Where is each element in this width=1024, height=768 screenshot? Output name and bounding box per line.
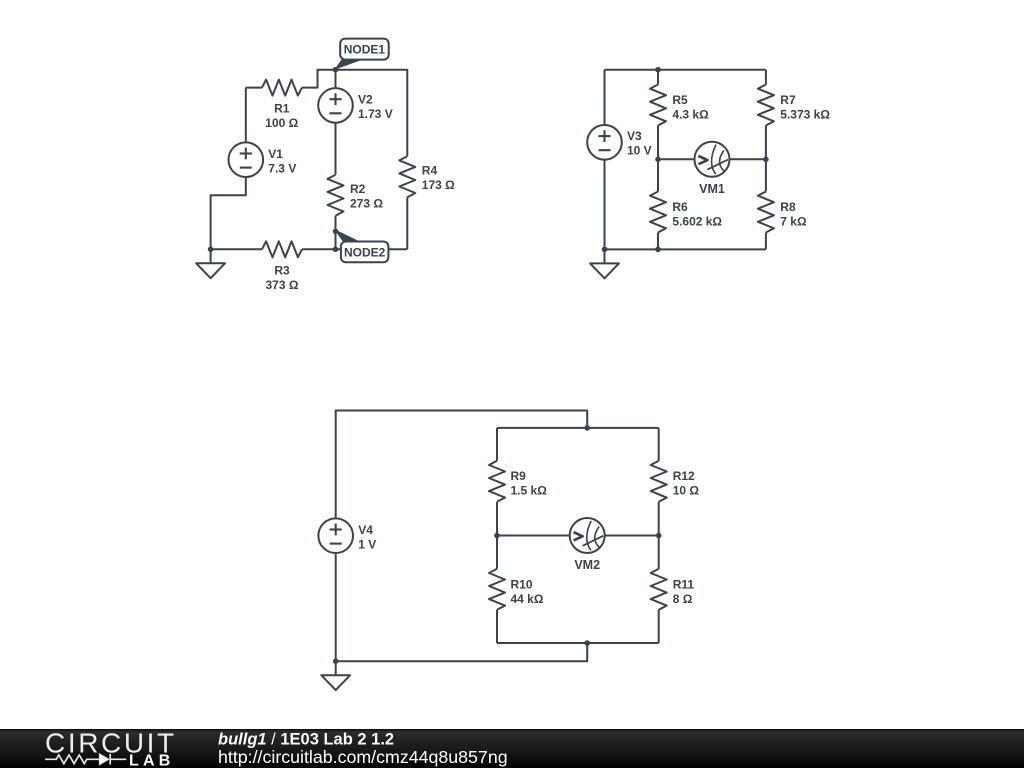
svg-text:8 Ω: 8 Ω xyxy=(673,592,693,606)
svg-text:1 V: 1 V xyxy=(358,537,376,551)
svg-text:http://circuitlab.com/cmz44q8u: http://circuitlab.com/cmz44q8u857ng xyxy=(218,747,508,767)
svg-text:5.373 kΩ: 5.373 kΩ xyxy=(780,107,830,121)
svg-text:173 Ω: 173 Ω xyxy=(422,178,455,192)
svg-text:bullg1 / 1E03 Lab 2 1.2: bullg1 / 1E03 Lab 2 1.2 xyxy=(218,730,394,748)
svg-text:R4: R4 xyxy=(422,164,438,178)
svg-text:V3: V3 xyxy=(627,129,642,143)
svg-text:7.3 V: 7.3 V xyxy=(268,162,296,176)
svg-text:R6: R6 xyxy=(672,200,688,214)
svg-text:273 Ω: 273 Ω xyxy=(350,197,383,211)
svg-text:R2: R2 xyxy=(350,182,366,196)
svg-text:R3: R3 xyxy=(274,263,290,277)
svg-text:R1: R1 xyxy=(274,102,290,116)
svg-text:NODE1: NODE1 xyxy=(344,43,386,57)
svg-text:R11: R11 xyxy=(673,578,695,592)
svg-text:V4: V4 xyxy=(358,523,373,537)
svg-text:10 Ω: 10 Ω xyxy=(673,484,700,498)
svg-text:100 Ω: 100 Ω xyxy=(265,116,298,130)
svg-text:LAB: LAB xyxy=(129,753,174,768)
svg-text:44 kΩ: 44 kΩ xyxy=(511,592,544,606)
svg-text:NODE2: NODE2 xyxy=(344,245,386,259)
svg-text:V1: V1 xyxy=(268,147,283,161)
svg-text:VM2: VM2 xyxy=(574,558,600,572)
svg-text:10 V: 10 V xyxy=(627,144,652,158)
svg-text:R5: R5 xyxy=(672,93,688,107)
svg-text:V2: V2 xyxy=(358,92,373,106)
svg-text:7 kΩ: 7 kΩ xyxy=(780,215,807,229)
svg-text:R9: R9 xyxy=(511,469,527,483)
svg-text:R12: R12 xyxy=(673,469,695,483)
svg-text:5.602 kΩ: 5.602 kΩ xyxy=(672,215,722,229)
svg-text:1.5 kΩ: 1.5 kΩ xyxy=(511,484,548,498)
svg-text:4.3 kΩ: 4.3 kΩ xyxy=(672,107,709,121)
svg-text:R8: R8 xyxy=(780,200,796,214)
svg-text:R7: R7 xyxy=(780,93,796,107)
svg-text:1.73 V: 1.73 V xyxy=(358,107,393,121)
svg-text:R10: R10 xyxy=(511,578,533,592)
svg-text:VM1: VM1 xyxy=(699,182,725,196)
svg-text:373 Ω: 373 Ω xyxy=(266,278,299,292)
